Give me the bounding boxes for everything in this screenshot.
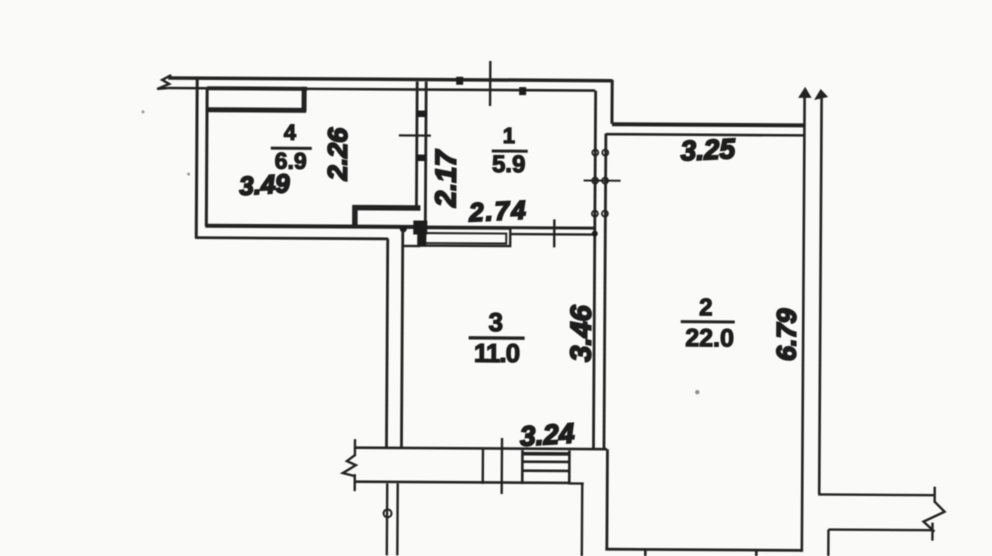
svg-text:3.46: 3.46 [565,304,597,362]
svg-text:3.24: 3.24 [519,418,576,452]
svg-text:4: 4 [284,120,297,145]
svg-text:3.49: 3.49 [238,168,291,201]
svg-text:1: 1 [503,123,515,148]
svg-text:3: 3 [488,307,503,337]
svg-text:22.0: 22.0 [685,324,734,352]
svg-text:6.79: 6.79 [771,308,801,361]
svg-text:11.0: 11.0 [474,338,520,368]
svg-text:2.74: 2.74 [467,195,528,228]
svg-text:5.9: 5.9 [492,151,526,178]
svg-text:2: 2 [699,294,713,321]
svg-text:2.26: 2.26 [323,127,353,182]
svg-text:3.25: 3.25 [680,133,736,167]
svg-text:2.17: 2.17 [430,149,462,209]
